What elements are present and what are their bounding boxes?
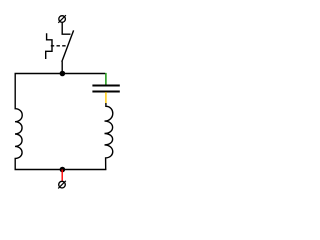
node A junction dot (60, 71, 66, 77)
capacitor C1 plate 2 (92, 91, 119, 93)
inductor L1 (left) (15, 74, 22, 170)
wire switch to node A (61, 61, 63, 73)
switch S1 linkage (dashed) (51, 45, 67, 47)
wire top rail (15, 73, 106, 75)
terminal J1 (top) (58, 15, 66, 23)
switch S1 actuator (46, 33, 52, 59)
switch S1 blade (62, 30, 74, 61)
wire green segment (105, 73, 107, 85)
node B junction dot (60, 167, 66, 173)
wire top pin (62, 22, 70, 34)
wire red segment (61, 170, 63, 182)
wire yellow segment (105, 92, 107, 103)
inductor L2 (right) (105, 103, 113, 170)
wire bottom rail (15, 169, 107, 171)
capacitor C1 plate 1 (92, 85, 119, 87)
terminal J2 (bottom) (58, 181, 66, 189)
